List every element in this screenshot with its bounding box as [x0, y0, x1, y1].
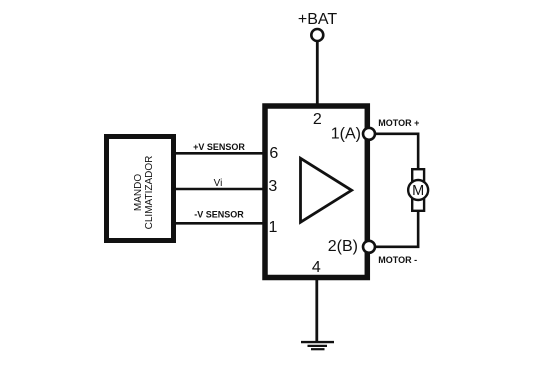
svg-text:2: 2 [313, 111, 322, 128]
svg-text:2(B): 2(B) [328, 238, 358, 255]
ground symbol [301, 342, 334, 349]
wire motor to node 2(B) [369, 210, 418, 247]
svg-text:1: 1 [269, 219, 278, 236]
wire pin 4 to ground [315, 279, 318, 342]
wire +V SENSOR to pin 6 [171, 152, 264, 155]
svg-text:CLIMATIZADOR: CLIMATIZADOR [144, 156, 155, 230]
svg-text:+BAT: +BAT [298, 11, 338, 28]
svg-text:MOTOR +: MOTOR + [378, 118, 419, 128]
motor M circle [408, 180, 428, 200]
control unit box MANDO CLIMATIZADOR [107, 137, 174, 241]
wire -V SENSOR to pin 1 [171, 222, 264, 225]
node 2(B) terminal circle [363, 241, 375, 253]
svg-text:3: 3 [268, 178, 277, 195]
motor M body [412, 169, 424, 211]
svg-text:1(A): 1(A) [331, 125, 361, 142]
svg-text:-V SENSOR: -V SENSOR [194, 209, 244, 219]
op-amp triangle [301, 158, 352, 222]
svg-text:4: 4 [312, 259, 321, 276]
svg-text:+V SENSOR: +V SENSOR [193, 142, 245, 152]
amplifier module box [265, 106, 367, 278]
svg-text:MOTOR -: MOTOR - [378, 255, 417, 265]
label MANDO CLIMATIZADOR [133, 156, 155, 230]
wire Vi to pin 3 [171, 188, 264, 191]
wire +BAT to pin 2 [316, 41, 319, 104]
svg-text:Vi: Vi [214, 178, 223, 189]
node 1(A) terminal circle [363, 128, 375, 140]
svg-text:6: 6 [269, 145, 278, 162]
svg-text:MANDO: MANDO [133, 174, 144, 211]
svg-text:M: M [412, 183, 424, 199]
+BAT terminal circle [311, 29, 323, 41]
wire node 1(A) to motor [369, 134, 418, 170]
